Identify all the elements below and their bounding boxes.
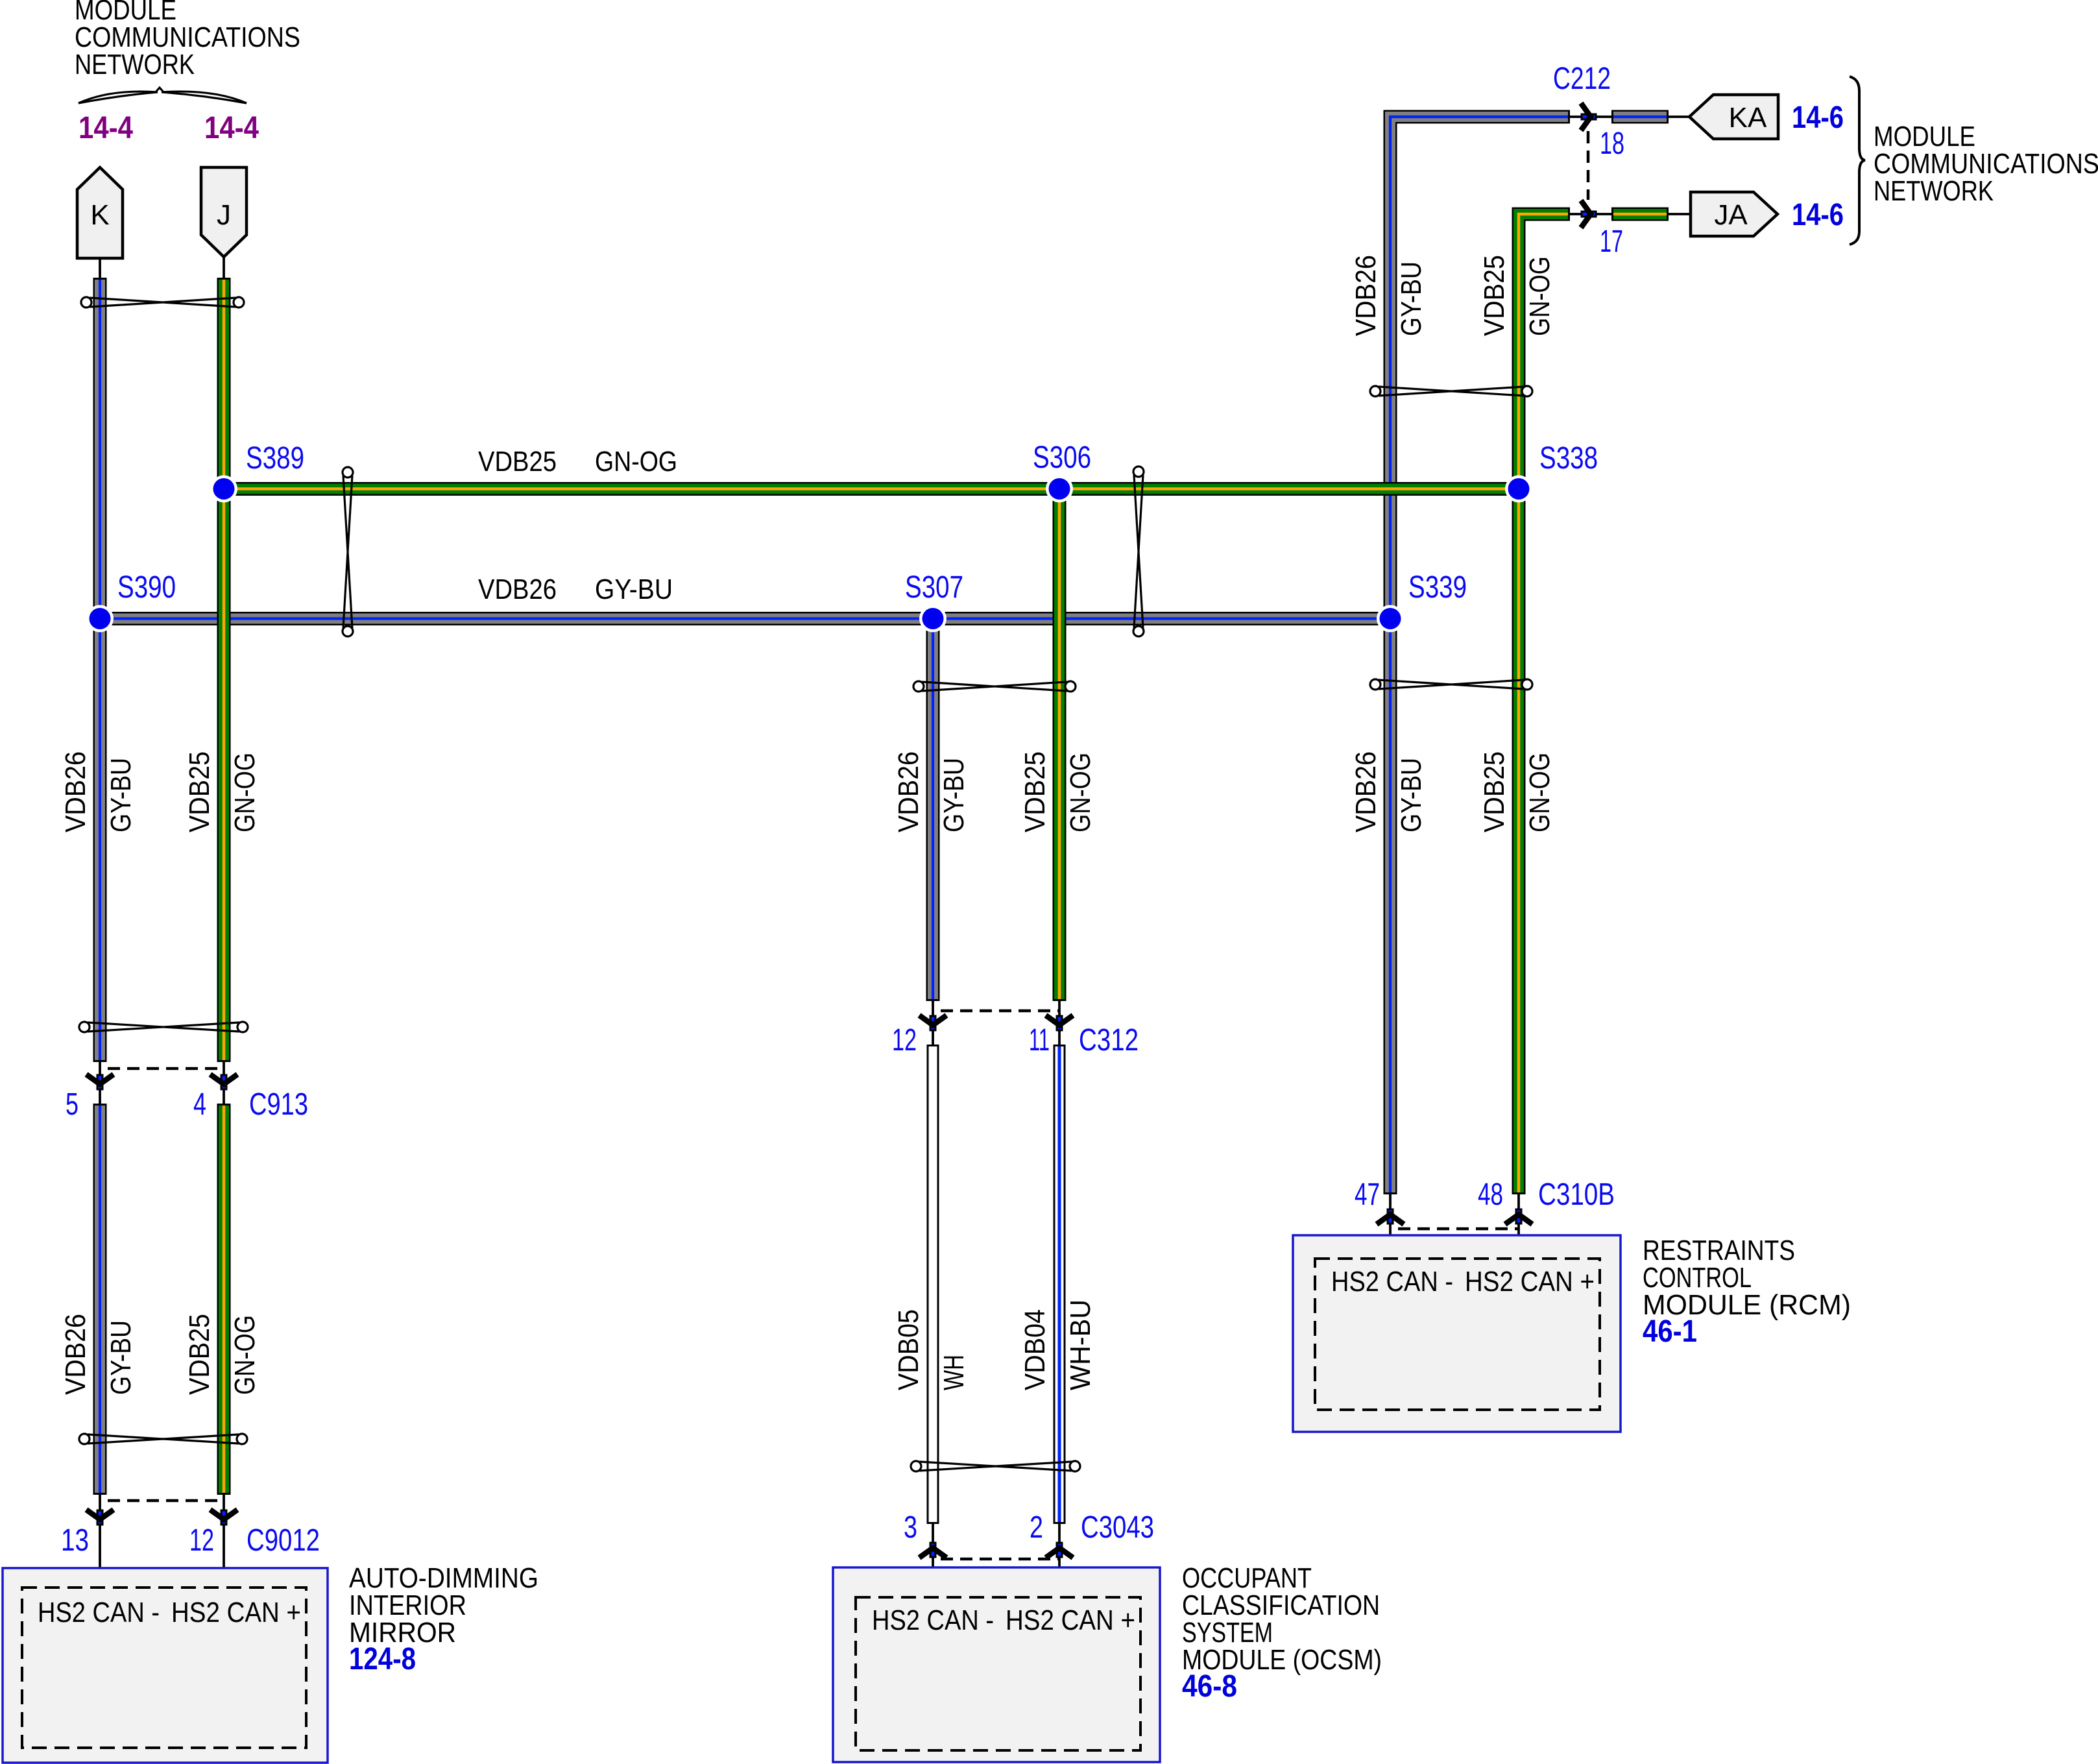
svg-text:18: 18 (1600, 127, 1624, 161)
svg-text:14-4: 14-4 (78, 111, 133, 145)
svg-text:S389: S389 (246, 441, 304, 476)
svg-text:K: K (90, 199, 109, 231)
svg-text:HS2 CAN +: HS2 CAN + (171, 1597, 301, 1628)
connector J (network lead) (201, 167, 247, 257)
splice S338 (1505, 476, 1532, 503)
wire link through C9012 pin 13 into mirror box (99, 1493, 101, 1588)
svg-text:GY-BU: GY-BU (1395, 261, 1427, 336)
connector C913 pin 5 arrow (97, 1074, 104, 1091)
svg-text:C212: C212 (1553, 62, 1611, 96)
svg-text:47: 47 (1355, 1178, 1380, 1212)
module box AUTO-DIMMING INTERIOR MIRROR (3, 1568, 328, 1763)
connector C913 dashed link (108, 1067, 224, 1070)
svg-text:NETWORK: NETWORK (1874, 175, 1994, 207)
wire VDB26 GY-BU middle drop from S307 to C312 (926, 619, 940, 1002)
svg-text:C310B: C310B (1538, 1178, 1615, 1212)
svg-text:2: 2 (1030, 1510, 1043, 1545)
svg-text:HS2 CAN +: HS2 CAN + (1465, 1266, 1595, 1298)
wire VDB25 GN-OG stub at C212 pin 17 (1611, 208, 1669, 221)
svg-text:S306: S306 (1033, 441, 1091, 475)
wire link through C3043 pin 3 into OCSM box (932, 1523, 934, 1597)
twisted pair symbol above C3043 (919, 1462, 1072, 1471)
wire VDB25 GN-OG right riser from C212 corner down to RCM pin 48 (1519, 214, 1570, 1194)
connector C310B dashed link (1398, 1227, 1519, 1231)
wire VDB25 GN-OG left drop from C913 to C9012 (217, 1104, 231, 1495)
svg-text:14-6: 14-6 (1792, 101, 1844, 135)
svg-text:HS2 CAN -: HS2 CAN - (872, 1604, 994, 1636)
svg-text:C312: C312 (1079, 1023, 1139, 1057)
svg-text:S307: S307 (905, 570, 963, 605)
svg-text:WH: WH (938, 1355, 970, 1390)
wire link through C212 pin 17 toward JA (1569, 213, 1691, 215)
svg-text:VDB25: VDB25 (184, 751, 215, 832)
connector C312 pin 12 arrow (930, 1015, 937, 1032)
brace right of KA/JA (module communications network) (1850, 77, 1865, 245)
connector C9012 pin 13 arrow (97, 1510, 104, 1526)
connector C212 dashed link (1587, 131, 1590, 200)
svg-text:VDB26: VDB26 (893, 751, 924, 832)
svg-text:14-4: 14-4 (204, 111, 259, 145)
svg-text:12: 12 (189, 1523, 214, 1558)
svg-text:VDB25: VDB25 (1478, 751, 1510, 832)
module box OCSM (833, 1567, 1160, 1762)
svg-text:VDB26: VDB26 (478, 574, 557, 605)
svg-text:3: 3 (904, 1510, 917, 1545)
twisted pair symbol above C913 (88, 1022, 239, 1032)
connector C212 pin 18 arrow (1581, 114, 1597, 121)
svg-text:46-8: 46-8 (1182, 1669, 1237, 1704)
wire stem below connector J (223, 256, 225, 279)
svg-text:J: J (217, 199, 231, 231)
svg-text:C913: C913 (249, 1087, 308, 1122)
svg-text:GN-OG: GN-OG (595, 446, 677, 477)
svg-text:HS2 CAN +: HS2 CAN + (1006, 1604, 1135, 1636)
svg-text:VDB26: VDB26 (60, 1314, 91, 1395)
svg-text:VDB25: VDB25 (1019, 751, 1051, 832)
twisted pair symbol on horizontal buses left (343, 476, 352, 628)
wire VDB25 GN-OG left drop from J to C913 (217, 278, 231, 1062)
svg-text:HS2 CAN -: HS2 CAN - (1331, 1266, 1453, 1298)
svg-text:GN-OG: GN-OG (1524, 256, 1556, 336)
svg-text:13: 13 (61, 1523, 89, 1558)
wire link through C310B pin 47 into RCM box (1389, 1193, 1392, 1259)
twisted pair symbol on right risers above S338 (1379, 387, 1524, 396)
svg-text:HS2 CAN -: HS2 CAN - (38, 1597, 160, 1628)
wire link through C913 pin 5 (99, 1061, 101, 1105)
splice S390 (86, 605, 114, 633)
wire link through C9012 pin 12 into mirror box (223, 1493, 225, 1588)
connector C212 pin 17 arrow (1581, 211, 1597, 218)
svg-text:GY-BU: GY-BU (105, 1320, 137, 1395)
wire link through C212 pin 18 toward KA (1569, 115, 1691, 118)
svg-text:C3043: C3043 (1081, 1510, 1154, 1545)
svg-text:VDB04: VDB04 (1019, 1309, 1051, 1390)
svg-text:VDB26: VDB26 (60, 751, 91, 832)
splice S306 (1046, 476, 1073, 503)
wire end caps (93, 278, 107, 280)
svg-text:GN-OG: GN-OG (1065, 753, 1096, 832)
brace over 14-4 labels (module communications network) (78, 92, 247, 103)
svg-text:VDB25: VDB25 (1478, 255, 1510, 336)
svg-text:GY-BU: GY-BU (1395, 758, 1427, 832)
connector C3043 pin 3 arrow (930, 1542, 937, 1558)
wire VDB26 GY-BU stub at C212 pin 18 (1611, 110, 1669, 124)
connector C310B pin 47 arrow (1387, 1209, 1394, 1225)
wire stem below connector K (99, 257, 101, 279)
wire VDB26 GY-BU left drop from C913 to C9012 (93, 1104, 107, 1495)
twisted pair symbol on right risers below S339 (1379, 680, 1524, 689)
svg-text:GY-BU: GY-BU (938, 758, 970, 832)
twisted pair symbol above C9012 (88, 1434, 239, 1444)
connector JA (network lead) (1691, 192, 1778, 236)
svg-text:VDB26: VDB26 (1350, 751, 1382, 832)
connector C310B pin 48 arrow (1515, 1209, 1523, 1225)
wire link through C913 pin 4 (223, 1061, 225, 1105)
svg-text:124-8: 124-8 (349, 1642, 416, 1676)
svg-text:5: 5 (66, 1087, 78, 1122)
svg-text:14-6: 14-6 (1792, 198, 1844, 232)
svg-text:VDB25: VDB25 (478, 446, 557, 477)
svg-text:11: 11 (1029, 1023, 1050, 1057)
twisted pair symbol below S307 (922, 682, 1067, 691)
svg-text:S390: S390 (117, 570, 176, 605)
svg-text:VDB26: VDB26 (1350, 255, 1382, 336)
svg-text:VDB25: VDB25 (184, 1314, 215, 1395)
wire VDB05 WH middle drop from C312 to C3043 (927, 1045, 939, 1524)
svg-text:WH-BU: WH-BU (1065, 1299, 1096, 1390)
svg-text:4: 4 (193, 1087, 206, 1122)
splice S339 (1377, 605, 1404, 633)
connector KA (network lead) (1689, 95, 1778, 139)
wire link through C312 pin 11 (1058, 1000, 1061, 1046)
wire VDB26 GY-BU left drop from K to C913 (93, 278, 107, 1062)
module box RCM (1293, 1235, 1621, 1432)
twisted pair symbol below K and J (90, 298, 235, 307)
wire VDB25 GN-OG middle drop from S306 to C312 (1053, 489, 1067, 1002)
wire VDB26 GY-BU right riser from C212 corner down to RCM pin 47 (1390, 117, 1570, 1194)
svg-text:GN-OG: GN-OG (1524, 753, 1556, 832)
svg-text:NETWORK: NETWORK (75, 49, 195, 80)
connector C3043 dashed link (941, 1558, 1059, 1561)
wire VDB04 WH-BU middle drop from C312 to C3043 (1054, 1045, 1066, 1524)
svg-text:GN-OG: GN-OG (229, 753, 261, 832)
svg-text:VDB05: VDB05 (893, 1309, 924, 1390)
wire link through C3043 pin 2 into OCSM box (1058, 1523, 1061, 1597)
splice S307 (919, 605, 947, 633)
connector C312 dashed link (941, 1009, 1059, 1013)
svg-text:46-1: 46-1 (1643, 1314, 1697, 1349)
connector K (network lead) (77, 167, 123, 258)
svg-text:C9012: C9012 (247, 1523, 320, 1558)
connector C3043 pin 2 arrow (1056, 1542, 1063, 1558)
wire VDB25 GN-OG horizontal bus S389 to S338 (224, 482, 1519, 496)
wire link through C312 pin 12 (932, 1000, 934, 1046)
connector C9012 dashed link (108, 1499, 224, 1503)
svg-text:12: 12 (892, 1023, 917, 1057)
svg-text:GY-BU: GY-BU (595, 574, 673, 605)
wire link through C310B pin 48 into RCM box (1517, 1193, 1520, 1259)
svg-text:GN-OG: GN-OG (229, 1315, 261, 1395)
svg-text:S339: S339 (1408, 570, 1467, 605)
svg-text:S338: S338 (1539, 441, 1598, 476)
connector C9012 pin 12 arrow (221, 1510, 228, 1526)
svg-text:GY-BU: GY-BU (105, 758, 137, 832)
connector C312 pin 11 arrow (1056, 1015, 1063, 1032)
connector C913 pin 4 arrow (221, 1074, 228, 1091)
svg-text:JA: JA (1714, 199, 1748, 231)
twisted pair symbol on horizontal buses right (1134, 475, 1143, 628)
splice S389 (210, 476, 237, 503)
svg-text:KA: KA (1729, 102, 1767, 134)
wire VDB26 GY-BU horizontal bus S390 to S339 (100, 612, 1390, 625)
svg-text:48: 48 (1478, 1178, 1503, 1212)
svg-text:17: 17 (1600, 224, 1623, 259)
